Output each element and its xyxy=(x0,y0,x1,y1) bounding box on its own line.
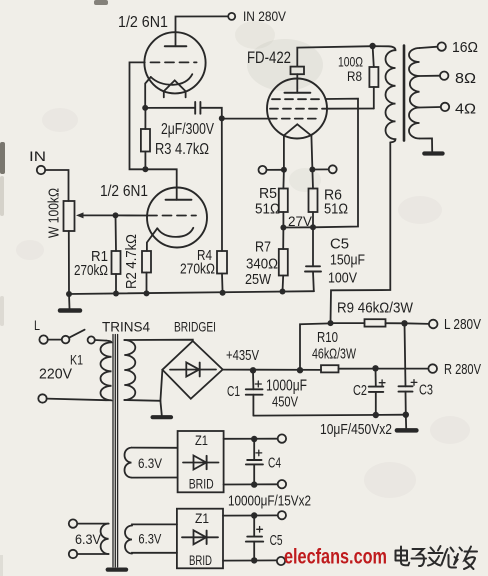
wire HV secondary top to bridge xyxy=(124,340,193,342)
wire cap to node A xyxy=(200,108,221,119)
node C1 xyxy=(250,367,256,373)
capacitor C5 (heater) xyxy=(253,516,255,537)
svg-text:1000μF: 1000μF xyxy=(266,378,307,395)
svg-text:46kΩ/3W: 46kΩ/3W xyxy=(312,346,357,363)
wire Z1 out top xyxy=(224,438,278,440)
terminal 16 ohm xyxy=(438,42,446,50)
wire Z1 out bottom xyxy=(224,483,278,485)
svg-text:C5: C5 xyxy=(330,236,349,253)
svg-text:elecfans.com: elecfans.com xyxy=(284,546,387,569)
svg-text:340Ω: 340Ω xyxy=(246,256,278,273)
svg-text:R8: R8 xyxy=(347,68,362,84)
switch K1 xyxy=(48,339,62,341)
svg-text:C5: C5 xyxy=(270,532,283,549)
node R280V / C2 xyxy=(372,365,378,371)
resistor R4 xyxy=(221,118,223,251)
ground (preamp) xyxy=(68,294,71,309)
resistor R5 xyxy=(282,170,285,189)
svg-text:BRID: BRID xyxy=(189,552,212,568)
wire tap 16ohm xyxy=(420,47,438,48)
svg-text:R9 46kΩ/3W: R9 46kΩ/3W xyxy=(337,300,414,317)
terminal 6.3V bottom xyxy=(69,550,77,558)
svg-text:2μF/300V: 2μF/300V xyxy=(161,121,214,138)
svg-text:100V: 100V xyxy=(328,270,357,287)
terminal 220V (mains bottom) xyxy=(38,394,46,402)
ground (bridge AC) xyxy=(160,401,161,416)
svg-text:L: L xyxy=(34,317,40,333)
wire HV secondary bottom to bridge xyxy=(124,370,162,401)
wire V1 plate to IN terminal xyxy=(176,16,229,46)
potentiometer W 100k xyxy=(64,201,75,231)
svg-text:150μF: 150μF xyxy=(330,252,365,269)
svg-text:R 280V: R 280V xyxy=(444,361,481,378)
svg-text:C2: C2 xyxy=(353,382,367,399)
svg-text:C3: C3 xyxy=(419,382,433,399)
capacitor C3 xyxy=(399,385,413,387)
terminal heater - xyxy=(278,480,286,488)
svg-text:450V: 450V xyxy=(272,394,298,411)
wire tap 4ohm xyxy=(420,106,441,109)
svg-text:4Ω: 4Ω xyxy=(455,101,476,118)
ground rail (preamp) xyxy=(69,291,314,294)
wire riser +435V to R9 xyxy=(300,323,331,370)
terminal L 280V xyxy=(405,322,429,325)
terminal 6.3V top xyxy=(69,519,77,527)
tube V1 1/2 6N1 (upper) xyxy=(144,32,205,93)
ground (filter) xyxy=(405,415,407,429)
svg-text:25W: 25W xyxy=(245,271,272,288)
watermark chinese 电子发烧友 xyxy=(396,546,478,569)
tube V3 FD-422 xyxy=(267,79,327,139)
svg-text:270kΩ: 270kΩ xyxy=(74,262,108,279)
transformer OPT core xyxy=(403,46,406,141)
wire input to pot top xyxy=(45,170,68,201)
svg-text:R2 4.7kΩ: R2 4.7kΩ xyxy=(123,234,140,289)
svg-text:R10: R10 xyxy=(317,329,338,346)
wire pot bottom to rail xyxy=(68,231,70,294)
svg-text:6.3V: 6.3V xyxy=(75,531,102,547)
filament terminal left xyxy=(259,166,267,174)
resistor R3 xyxy=(144,108,146,129)
winding 6.3V (first heater) xyxy=(125,448,132,478)
node B (V2 plate / V1 grid) xyxy=(142,166,148,172)
terminal heater + xyxy=(278,434,286,442)
wire Z1b out bottom xyxy=(223,559,277,561)
resistor R6 xyxy=(311,170,314,189)
wire V2 grid to wiper node xyxy=(116,214,148,216)
wire node A to FD-422 grid xyxy=(222,118,268,120)
svg-text:IN: IN xyxy=(29,148,46,164)
svg-text:6.3V: 6.3V xyxy=(138,455,163,471)
node R9 riser xyxy=(297,367,303,373)
wire V3 cathode leads xyxy=(283,135,285,169)
svg-text:8Ω: 8Ω xyxy=(455,70,476,87)
wire V2 plate to node B xyxy=(145,169,176,200)
wire cathode to coupling cap xyxy=(145,107,194,109)
svg-text:L 280V: L 280V xyxy=(444,316,481,333)
svg-text:6.3V: 6.3V xyxy=(138,531,162,547)
svg-text:C1: C1 xyxy=(227,383,240,400)
wire V1 grid loop xyxy=(130,62,146,169)
capacitor C4 xyxy=(253,439,255,460)
ground OPT secondary xyxy=(420,138,433,151)
svg-text:51Ω: 51Ω xyxy=(255,201,280,218)
transformer TRINS4 core xyxy=(113,335,118,567)
svg-text:BRID: BRID xyxy=(189,476,214,492)
wire V2 cathode to R2 xyxy=(147,228,157,251)
svg-text:1/2 6N1: 1/2 6N1 xyxy=(100,183,148,200)
capacitor C1 xyxy=(252,370,254,389)
node R9 left xyxy=(328,320,334,326)
svg-text:R7: R7 xyxy=(255,239,271,256)
capacitor C5 150uF xyxy=(312,227,314,266)
svg-text:16Ω: 16Ω xyxy=(452,39,478,56)
svg-text:Z1: Z1 xyxy=(195,510,209,526)
winding 6.3V (left output) xyxy=(101,524,109,554)
node L280V xyxy=(401,320,407,326)
resistor R9 xyxy=(331,322,365,324)
svg-text:10μF/450Vx2: 10μF/450Vx2 xyxy=(320,421,392,438)
resistor R2 xyxy=(142,251,151,273)
transformer OPT secondary xyxy=(409,48,420,139)
filament terminal right xyxy=(329,165,337,173)
ground (core shield) xyxy=(108,567,126,571)
tube V2 1/2 6N1 (lower) xyxy=(147,188,207,248)
svg-text:270kΩ: 270kΩ xyxy=(180,261,215,278)
terminal IN 280V xyxy=(228,13,235,20)
svg-text:TRINS4: TRINS4 xyxy=(102,319,150,335)
svg-text:W 100kΩ: W 100kΩ xyxy=(46,188,63,238)
svg-text:+435V: +435V xyxy=(226,347,259,364)
transformer TRINS4 primary xyxy=(101,341,112,401)
node plate/R8 xyxy=(369,43,375,49)
svg-text:IN 280V: IN 280V xyxy=(243,8,287,24)
winding 6.3V (second heater) xyxy=(125,526,132,554)
transformer OPT primary xyxy=(373,46,396,142)
wire tap 8ohm xyxy=(420,75,441,77)
svg-text:1/2 6N1: 1/2 6N1 xyxy=(118,14,168,31)
wire switch to primary xyxy=(95,339,107,342)
svg-text:10000μF/15Vx2: 10000μF/15Vx2 xyxy=(228,493,311,510)
svg-text:BRIDGEI: BRIDGEI xyxy=(174,319,216,335)
transformer TRINS4 HV secondary xyxy=(124,340,135,400)
terminal 4 ohm xyxy=(441,103,449,111)
terminal 8 ohm xyxy=(440,72,448,80)
wire filter ground rail xyxy=(253,414,405,417)
terminal heater2 + xyxy=(278,511,286,519)
node wiper xyxy=(113,212,119,218)
rectifier Z1 (second) xyxy=(177,509,223,569)
svg-text:Z1: Z1 xyxy=(195,432,208,448)
capacitor 2uF/300V xyxy=(194,102,196,114)
wire V3 plate to OPT xyxy=(296,74,298,93)
wire suppressor grid to cathode node xyxy=(313,99,358,228)
wire Z1b out top xyxy=(223,514,278,516)
capacitor C2 xyxy=(375,368,377,386)
svg-text:27V: 27V xyxy=(288,213,313,229)
svg-text:R5: R5 xyxy=(259,185,277,202)
svg-text:FD-422: FD-422 xyxy=(247,48,291,67)
wire screen grid to R8 xyxy=(327,108,374,110)
resistor R10 xyxy=(321,365,339,372)
resistor R8 xyxy=(373,46,374,67)
wire V1 cathode lead xyxy=(145,77,151,108)
svg-text:220V: 220V xyxy=(39,366,72,383)
wire bridge output +435V rail xyxy=(223,369,321,371)
resistor R1 xyxy=(115,215,118,251)
rectifier Z1 (first) xyxy=(178,431,224,492)
node A (coupling output) xyxy=(219,115,225,121)
wire OPT primary bottom to B+ xyxy=(331,142,391,323)
bridge rectifier BRIDGEI xyxy=(162,341,222,399)
svg-text:C4: C4 xyxy=(268,455,281,472)
terminal heater2 - xyxy=(277,557,285,565)
terminal R 280V xyxy=(428,364,437,373)
resistor R7 xyxy=(282,228,284,250)
node 27V xyxy=(283,226,313,228)
svg-text:R3 4.7kΩ: R3 4.7kΩ xyxy=(155,141,209,158)
svg-text:51Ω: 51Ω xyxy=(324,201,348,218)
node V1 cathode xyxy=(142,105,148,111)
wire L node to C3 xyxy=(405,323,406,386)
